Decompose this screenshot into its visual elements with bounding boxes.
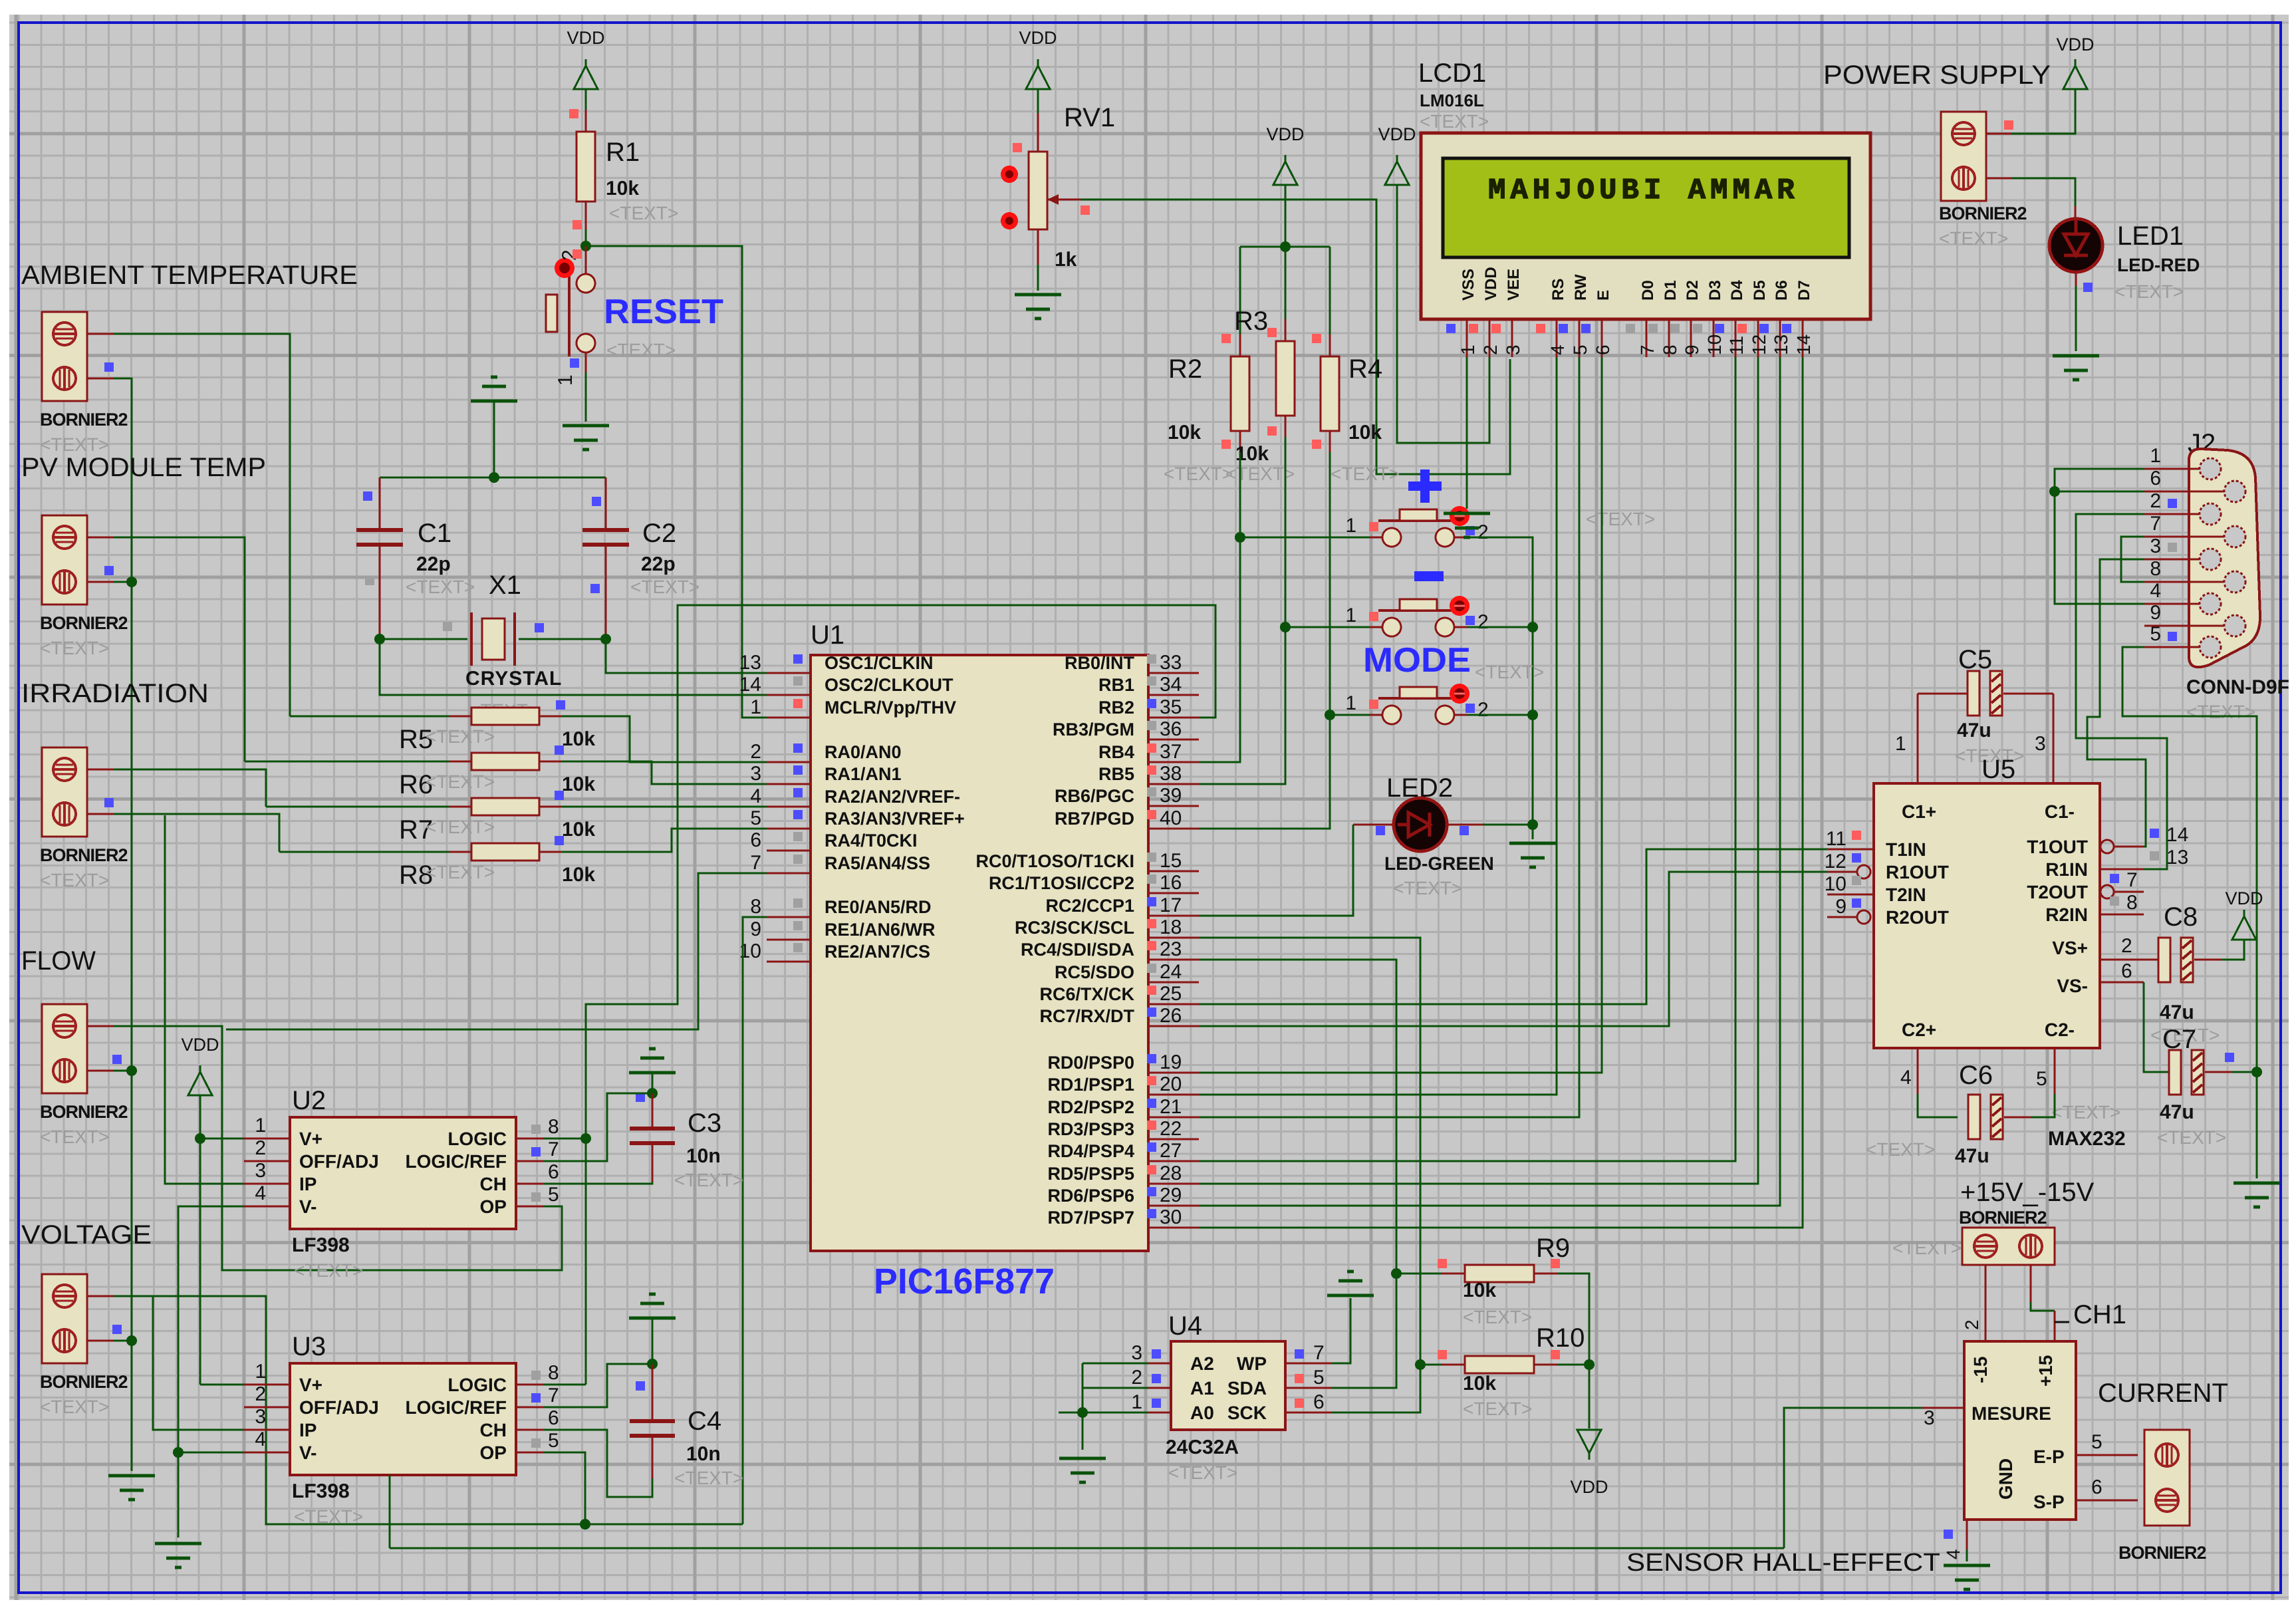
svg-text:<TEXT>: <TEXT>	[1463, 1399, 1532, 1419]
svg-text:RA3/AN3/VREF+: RA3/AN3/VREF+	[825, 809, 965, 829]
svg-text:RB6/PGC: RB6/PGC	[1055, 786, 1134, 806]
svg-text:RC2/CCP1: RC2/CCP1	[1045, 896, 1134, 916]
svg-text:MAX232: MAX232	[2048, 1128, 2126, 1150]
svg-text:OSC2/CLKOUT: OSC2/CLKOUT	[825, 675, 954, 695]
U5 pin 13 R1IN	[2100, 869, 2144, 871]
J2 pin 7	[2189, 536, 2225, 538]
svg-text:16: 16	[1160, 872, 1182, 894]
svg-text:8: 8	[2126, 892, 2138, 914]
U1 pin 5 RA3/AN3/VREF+	[767, 828, 811, 830]
svg-text:A0: A0	[1190, 1403, 1214, 1423]
U2 pin 6 CH	[516, 1183, 544, 1185]
svg-text:7: 7	[750, 852, 761, 874]
wire IRR pin1 to R7	[87, 769, 114, 771]
svg-text:IP: IP	[299, 1420, 317, 1440]
svg-text:8: 8	[548, 1116, 559, 1138]
svg-text:D5: D5	[1751, 280, 1769, 301]
U1 pin 2 RA0/AN0	[767, 761, 811, 763]
MESURE pin 3	[1922, 1407, 1964, 1409]
svg-text:VEE: VEE	[1505, 269, 1523, 301]
potentiometer RV1 1k	[1037, 113, 1039, 152]
svg-text:22p: 22p	[641, 553, 676, 575]
U5 pin 9 R2OUT	[1827, 916, 1858, 918]
U2 pin 8 LOGIC	[516, 1138, 544, 1140]
label minus button	[1414, 571, 1444, 581]
svg-text:U1: U1	[811, 620, 844, 650]
U4 pin 3 A2	[1148, 1363, 1171, 1365]
svg-text:14: 14	[1793, 335, 1814, 355]
U2 pin 1 V+	[244, 1138, 290, 1140]
svg-text:10k: 10k	[606, 178, 639, 200]
microcontroller U1 PIC16F877	[811, 655, 1148, 1251]
svg-text:18: 18	[1160, 916, 1182, 938]
ground above crystal (inverted)	[471, 400, 517, 403]
svg-text:5: 5	[1313, 1367, 1325, 1389]
svg-text:7: 7	[548, 1139, 559, 1160]
svg-text:7: 7	[1313, 1342, 1325, 1364]
svg-text:10n: 10n	[686, 1145, 721, 1167]
svg-text:R2: R2	[1168, 354, 1202, 384]
svg-text:R1OUT: R1OUT	[1886, 862, 1949, 882]
U1 pin 36 RB3/PGM	[1148, 739, 1199, 741]
wire LCD D5 to RD5	[1199, 357, 1758, 1184]
resistor R8 10k	[449, 851, 471, 853]
svg-text:4: 4	[750, 785, 761, 807]
svg-text:<TEXT>: <TEXT>	[2114, 281, 2184, 302]
wire sensor hall-effect rail	[390, 1547, 1784, 1549]
J2 pin 2	[2189, 513, 2200, 515]
U1 pin 28 RD5/PSP5	[1148, 1183, 1199, 1185]
svg-text:<TEXT>: <TEXT>	[40, 1127, 109, 1147]
svg-text:X1: X1	[489, 571, 521, 600]
svg-text:20: 20	[1160, 1073, 1182, 1095]
svg-text:RE1/AN6/WR: RE1/AN6/WR	[825, 920, 936, 940]
svg-text:RV1: RV1	[1064, 103, 1115, 132]
eeprom U4 24C32A	[1171, 1341, 1285, 1430]
svg-text:RB7/PGD: RB7/PGD	[1055, 809, 1134, 829]
svg-text:35: 35	[1160, 696, 1182, 718]
svg-text:4: 4	[1900, 1067, 1912, 1089]
svg-text:13: 13	[2166, 847, 2188, 869]
svg-text:1: 1	[750, 696, 761, 718]
svg-text:C3: C3	[688, 1109, 721, 1138]
svg-text:T2OUT: T2OUT	[2027, 882, 2088, 902]
MESURE pin 4 to ground	[1966, 1520, 1968, 1549]
svg-text:2: 2	[255, 1383, 266, 1405]
svg-text:VDD: VDD	[1378, 124, 1416, 144]
resistor R5 10k	[449, 716, 471, 718]
svg-text:47u: 47u	[1957, 720, 1991, 741]
U1 pin 30 RD7/PSP7	[1148, 1227, 1199, 1229]
svg-text:4: 4	[1547, 344, 1568, 355]
svg-text:PV MODULE TEMP: PV MODULE TEMP	[21, 453, 266, 482]
svg-text:RB1: RB1	[1098, 675, 1134, 695]
U1 pin 18 RC3/SCK/SCL	[1148, 937, 1199, 939]
svg-text:U4: U4	[1168, 1311, 1202, 1341]
svg-text:1: 1	[1345, 515, 1356, 537]
wire RESET button to ground	[585, 352, 587, 372]
capacitor C3 10n	[652, 1073, 654, 1093]
svg-text:<TEXT>: <TEXT>	[1866, 1139, 1935, 1160]
svg-text:6: 6	[750, 829, 761, 851]
svg-text:19: 19	[1160, 1051, 1182, 1073]
node R1 bottom	[585, 229, 587, 246]
svg-text:BORNIER2: BORNIER2	[40, 410, 128, 430]
svg-text:47u: 47u	[1955, 1145, 1989, 1167]
svg-text:8: 8	[750, 896, 761, 918]
svg-text:9: 9	[2150, 602, 2161, 624]
bornier J-FLOW (BORNIER2)	[42, 1004, 87, 1093]
U2 pin 5 OP	[516, 1206, 544, 1208]
svg-text:10k: 10k	[1463, 1373, 1496, 1395]
svg-text:RD1/PSP1: RD1/PSP1	[1047, 1075, 1134, 1095]
svg-text:RB0/INT: RB0/INT	[1065, 653, 1135, 673]
U1 pin 14 OSC2/CLKOUT	[767, 694, 811, 696]
svg-text:SENSOR HALL-EFFECT: SENSOR HALL-EFFECT	[1626, 1549, 1940, 1577]
svg-text:<TEXT>: <TEXT>	[1168, 1462, 1237, 1483]
svg-text:1: 1	[1345, 692, 1356, 714]
svg-text:R3: R3	[1234, 307, 1268, 336]
wire minus to ground column	[1467, 627, 1533, 715]
svg-text:1: 1	[2150, 445, 2161, 467]
capacitor C1 22p	[379, 477, 381, 530]
svg-text:10k: 10k	[562, 819, 595, 841]
svg-text:VDD: VDD	[2056, 35, 2094, 55]
svg-text:<TEXT>: <TEXT>	[2186, 702, 2255, 722]
U1 pin 1 MCLR/Vpp/THV	[767, 717, 811, 719]
svg-text:<TEXT>: <TEXT>	[1331, 464, 1400, 484]
wire power pin1 to VDD	[1985, 133, 2011, 135]
wire LCD D6 to RD6	[1199, 357, 1780, 1206]
svg-text:<TEXT>: <TEXT>	[426, 862, 495, 882]
svg-text:C6: C6	[1959, 1061, 1993, 1090]
svg-text:<TEXT>: <TEXT>	[1463, 1307, 1532, 1327]
svg-text:RD4/PSP4: RD4/PSP4	[1047, 1141, 1134, 1161]
U3 pin 7 LOGIC/REF	[516, 1407, 544, 1409]
wire LCD D7 to RD7	[1199, 357, 1803, 1228]
wire RC6 TX to U5 T1IN	[1199, 849, 1827, 1004]
ground under RV1	[1015, 293, 1061, 297]
pushbutton PLUS	[1240, 537, 1370, 539]
MESURE pin 5 E-P	[2076, 1454, 2138, 1456]
wire bornier to MESURE pin2	[1985, 1265, 1987, 1341]
svg-text:LF398: LF398	[292, 1234, 350, 1256]
U3 pin 3 IP	[244, 1429, 290, 1431]
svg-text:25: 25	[1160, 983, 1182, 1005]
ground under LCD pin1	[1444, 512, 1490, 515]
svg-text:10: 10	[1825, 873, 1847, 895]
svg-text:4: 4	[255, 1182, 266, 1204]
ground below U4 address pins	[1059, 1457, 1106, 1460]
svg-text:<TEXT>: <TEXT>	[1892, 1238, 1962, 1258]
op-amp U3 LF398	[290, 1363, 516, 1475]
U1 pin 21 RD2/PSP2	[1148, 1117, 1199, 1119]
svg-text:U5: U5	[1981, 755, 2015, 784]
svg-text:21: 21	[1160, 1096, 1182, 1118]
U3 pin 8 LOGIC	[516, 1384, 544, 1386]
U1 pin 34 RB1	[1148, 694, 1199, 696]
U1 pin 39 RB6/PGC	[1148, 805, 1199, 807]
svg-text:C2+: C2+	[1902, 1019, 1936, 1040]
svg-text:OFF/ADJ: OFF/ADJ	[299, 1397, 379, 1418]
svg-text:R1: R1	[606, 138, 640, 167]
svg-text:OP: OP	[480, 1196, 507, 1217]
svg-text:8: 8	[2150, 558, 2161, 580]
svg-text:1: 1	[1895, 733, 1906, 755]
J2 pin 6	[2189, 491, 2225, 493]
svg-text:D6: D6	[1773, 280, 1791, 301]
svg-text:VDD: VDD	[1266, 124, 1304, 144]
capacitor C2 22p	[605, 477, 607, 530]
J2 pin 9	[2189, 625, 2225, 627]
svg-text:U2: U2	[292, 1086, 326, 1115]
pin square VOLTAGE	[112, 1325, 122, 1334]
U1 pin 3 RA1/AN1	[767, 783, 811, 785]
svg-text:13: 13	[1771, 335, 1791, 355]
svg-text:11: 11	[1826, 828, 1847, 850]
wire RE0 loop to U3 OP rail	[743, 917, 767, 1524]
svg-text:3: 3	[2035, 733, 2046, 755]
U1 pin 40 RB7/PGD	[1148, 828, 1199, 830]
U1 pin 8 RE0/AN5/RD	[767, 916, 811, 918]
svg-text:MODE: MODE	[1363, 641, 1471, 680]
svg-text:24C32A: 24C32A	[1166, 1436, 1239, 1458]
svg-text:AMBIENT TEMPERATURE: AMBIENT TEMPERATURE	[21, 261, 358, 290]
wire U3 IP column	[153, 1296, 244, 1430]
svg-text:6: 6	[2121, 960, 2132, 982]
svg-text:<TEXT>: <TEXT>	[406, 577, 475, 597]
U1 pin 35 RB2	[1148, 717, 1199, 719]
svg-text:<TEXT>: <TEXT>	[674, 1468, 743, 1488]
svg-text:VDD: VDD	[1482, 267, 1500, 301]
svg-text:38: 38	[1160, 763, 1182, 785]
svg-text:CH1: CH1	[2073, 1300, 2126, 1329]
wire LCD E to RD0	[1199, 357, 1602, 1073]
U5 pin 8 R2IN	[2100, 914, 2144, 916]
svg-text:MESURE: MESURE	[1972, 1403, 2051, 1424]
svg-text:V+: V+	[299, 1129, 322, 1149]
pin square IRR	[104, 798, 114, 807]
svg-text:E-P: E-P	[2033, 1446, 2065, 1467]
svg-text:VDD: VDD	[567, 28, 604, 48]
wire RB2 to U2 and U3 LOGIC	[586, 605, 1215, 1385]
U4 pin 7 WP	[1285, 1363, 1331, 1365]
svg-text:RA5/AN4/SS: RA5/AN4/SS	[825, 853, 930, 873]
svg-text:2: 2	[1962, 1319, 1982, 1330]
svg-text:BORNIER2: BORNIER2	[1959, 1208, 2047, 1228]
wire PV pin1 to R6 column	[87, 537, 114, 539]
U1 pin 25 RC6/TX/CK	[1148, 1004, 1199, 1006]
svg-text:SDA: SDA	[1227, 1378, 1267, 1399]
wire R3 to RB5	[1199, 437, 1285, 784]
svg-text:BORNIER2: BORNIER2	[2118, 1543, 2206, 1563]
bornier J-PV (BORNIER2)	[42, 515, 87, 604]
svg-text:BORNIER2: BORNIER2	[1939, 203, 2027, 223]
svg-text:BORNIER2: BORNIER2	[40, 1372, 128, 1392]
ground bottom right	[2233, 1182, 2280, 1185]
svg-text:MAHJOUBI AMMAR: MAHJOUBI AMMAR	[1488, 174, 1799, 207]
svg-text:2: 2	[2150, 490, 2161, 512]
U1 pin 4 RA2/AN2/VREF-	[767, 806, 811, 808]
svg-text:26: 26	[1160, 1005, 1182, 1027]
svg-text:4: 4	[1943, 1549, 1964, 1559]
svg-text:<TEXT>: <TEXT>	[609, 203, 678, 223]
wire LED1 cathode to ground	[2075, 271, 2077, 286]
svg-text:T2IN: T2IN	[1886, 884, 1926, 905]
svg-text:12: 12	[1749, 335, 1769, 355]
svg-text:A1: A1	[1190, 1378, 1214, 1399]
U1 pin 27 RD4/PSP4	[1148, 1160, 1199, 1162]
svg-text:RE0/AN5/RD: RE0/AN5/RD	[825, 897, 932, 917]
svg-text:12: 12	[1825, 851, 1847, 872]
svg-text:9: 9	[750, 918, 761, 940]
U1 pin 29 RD6/PSP6	[1148, 1205, 1199, 1207]
wire J2 pin2 to U5 R1IN	[2076, 514, 2167, 869]
svg-text:<TEXT>: <TEXT>	[1475, 662, 1544, 682]
svg-text:RW: RW	[1572, 274, 1590, 301]
resistor R1 10k	[585, 110, 587, 132]
svg-text:3: 3	[1503, 344, 1523, 355]
svg-text:RD0/PSP0: RD0/PSP0	[1047, 1053, 1134, 1073]
U1 pin 9 RE1/AN6/WR	[767, 939, 811, 941]
wire R5 to RA0	[290, 716, 449, 718]
wire VDD to U2 U3 V+	[199, 1095, 201, 1385]
power VDD arrow down (R9R10)	[1577, 1430, 1601, 1453]
capacitor C4 10n	[652, 1318, 654, 1364]
J2 pin 1	[2189, 468, 2200, 470]
svg-text:7: 7	[2126, 869, 2138, 891]
svg-text:<TEXT>: <TEXT>	[426, 817, 495, 837]
svg-text:VDD: VDD	[181, 1035, 219, 1055]
svg-text:10k: 10k	[1168, 422, 1201, 444]
J2 pin 3	[2189, 559, 2200, 561]
U5 pin 7 T2OUT	[2113, 891, 2144, 893]
svg-text:<TEXT>: <TEXT>	[1393, 878, 1462, 898]
wire C3 node to U2 LOGIC/REF	[544, 1093, 652, 1161]
wire FLOW pin1 to U2 OP loop	[87, 1025, 114, 1027]
wire AMBIENT pin2 to left ground rail	[87, 378, 114, 380]
wire R9 R10 to VDD down arrow	[1557, 1274, 1589, 1428]
U4 pin 6 SCK	[1285, 1412, 1331, 1414]
wire R2 to RB4	[1199, 452, 1240, 762]
svg-text:<TEXT>: <TEXT>	[1164, 464, 1233, 484]
bornier J-AMBIENT (BORNIER2)	[42, 312, 87, 401]
svg-text:RC6/TX/CK: RC6/TX/CK	[1039, 984, 1134, 1004]
svg-text:C2-: C2-	[2045, 1019, 2075, 1040]
svg-text:C1+: C1+	[1902, 801, 1936, 822]
svg-text:LOGIC/REF: LOGIC/REF	[406, 1397, 507, 1418]
svg-text:4: 4	[255, 1428, 266, 1450]
svg-text:22p: 22p	[416, 553, 451, 575]
wire J2 pin3 to U5 T1OUT	[2087, 559, 2146, 847]
svg-text:VSS: VSS	[1460, 269, 1477, 301]
svg-text:BORNIER2: BORNIER2	[40, 1102, 128, 1122]
pin square FLOW	[112, 1055, 122, 1064]
wire RA5 to FLOW net	[226, 873, 767, 1029]
svg-text:1: 1	[1458, 344, 1478, 355]
svg-text:6: 6	[548, 1161, 559, 1183]
svg-text:10k: 10k	[562, 728, 595, 750]
svg-text:R4: R4	[1348, 354, 1382, 384]
wire U3 OP to loop rail	[544, 1452, 585, 1524]
svg-text:10k: 10k	[1463, 1279, 1496, 1301]
U5 pin 11 T1IN	[1827, 849, 1874, 851]
U1 pin 23 RC4/SDI/SDA	[1148, 959, 1199, 961]
U5 pin 12 R1OUT	[1827, 871, 1858, 873]
svg-text:R1IN: R1IN	[2045, 859, 2088, 880]
svg-text:C4: C4	[688, 1407, 721, 1436]
svg-text:BORNIER2: BORNIER2	[40, 845, 128, 865]
wire U4 WP to inverted ground	[1331, 1298, 1350, 1363]
svg-text:VDD: VDD	[1019, 28, 1057, 48]
wire AMBIENT pin1 to R5 column	[87, 333, 114, 335]
svg-text:RC7/RX/DT: RC7/RX/DT	[1039, 1006, 1134, 1026]
svg-text:9: 9	[1835, 896, 1847, 918]
svg-text:5: 5	[2150, 623, 2161, 645]
svg-text:C1: C1	[418, 519, 451, 548]
svg-text:+15V_-15V: +15V_-15V	[1960, 1178, 2095, 1207]
wire C1-C2 top rail	[380, 477, 606, 479]
svg-text:D4: D4	[1728, 280, 1746, 301]
capacitor C6 47u	[1917, 1048, 1919, 1094]
U1 pin 15 RC0/T1OSO/T1CKI	[1148, 871, 1199, 872]
svg-text:IRRADIATION: IRRADIATION	[21, 679, 209, 708]
svg-text:U3: U3	[292, 1332, 326, 1361]
svg-text:29: 29	[1160, 1184, 1182, 1206]
svg-text:LCD1: LCD1	[1418, 59, 1486, 88]
wire RC3 SCK to U4 SCK	[1199, 938, 1420, 1412]
svg-text:37: 37	[1160, 741, 1182, 763]
U1 pin 20 RD1/PSP1	[1148, 1094, 1199, 1096]
svg-text:2: 2	[1477, 699, 1489, 721]
svg-text:R9: R9	[1536, 1234, 1570, 1263]
svg-text:1: 1	[1345, 604, 1356, 626]
svg-text:24: 24	[1160, 961, 1182, 983]
svg-text:RE2/AN7/CS: RE2/AN7/CS	[825, 942, 930, 962]
svg-text:RS: RS	[1549, 279, 1567, 301]
svg-text:33: 33	[1160, 652, 1182, 674]
bornier J-IRR (BORNIER2)	[42, 747, 87, 837]
svg-text:<TEXT>: <TEXT>	[40, 638, 109, 658]
svg-text:6: 6	[548, 1407, 559, 1429]
svg-text:RD7/PSP7: RD7/PSP7	[1047, 1208, 1134, 1228]
svg-text:<TEXT>: <TEXT>	[40, 434, 109, 455]
svg-text:C5: C5	[1958, 645, 1992, 674]
svg-text:<TEXT>: <TEXT>	[294, 1506, 363, 1527]
svg-text:SCK: SCK	[1227, 1403, 1267, 1423]
U1 pin 33 RB0/INT	[1148, 672, 1199, 674]
svg-text:BORNIER2: BORNIER2	[40, 613, 128, 633]
svg-text:RB5: RB5	[1098, 764, 1134, 784]
svg-text:5: 5	[548, 1184, 559, 1206]
label plus button	[1420, 470, 1430, 503]
U1 pin 10 RE2/AN7/CS	[767, 961, 811, 963]
svg-text:<TEXT>: <TEXT>	[2051, 1102, 2120, 1123]
svg-text:R2IN: R2IN	[2045, 904, 2088, 925]
svg-text:D3: D3	[1706, 280, 1724, 301]
svg-text:10: 10	[1704, 335, 1725, 355]
wire C7 to ground column	[2232, 1071, 2257, 1073]
wire C8 to VDD	[2222, 940, 2244, 960]
resistor R6 10k	[449, 761, 471, 763]
svg-text:LED-GREEN: LED-GREEN	[1384, 853, 1494, 874]
svg-text:RC0/T1OSO/T1CKI: RC0/T1OSO/T1CKI	[975, 851, 1134, 871]
svg-text:7: 7	[2150, 513, 2161, 535]
svg-text:RD2/PSP2: RD2/PSP2	[1047, 1097, 1134, 1117]
svg-text:RC3/SCK/SCL: RC3/SCK/SCL	[1015, 918, 1134, 938]
svg-text:RB3/PGM: RB3/PGM	[1053, 720, 1134, 739]
svg-text:FLOW: FLOW	[21, 946, 96, 976]
